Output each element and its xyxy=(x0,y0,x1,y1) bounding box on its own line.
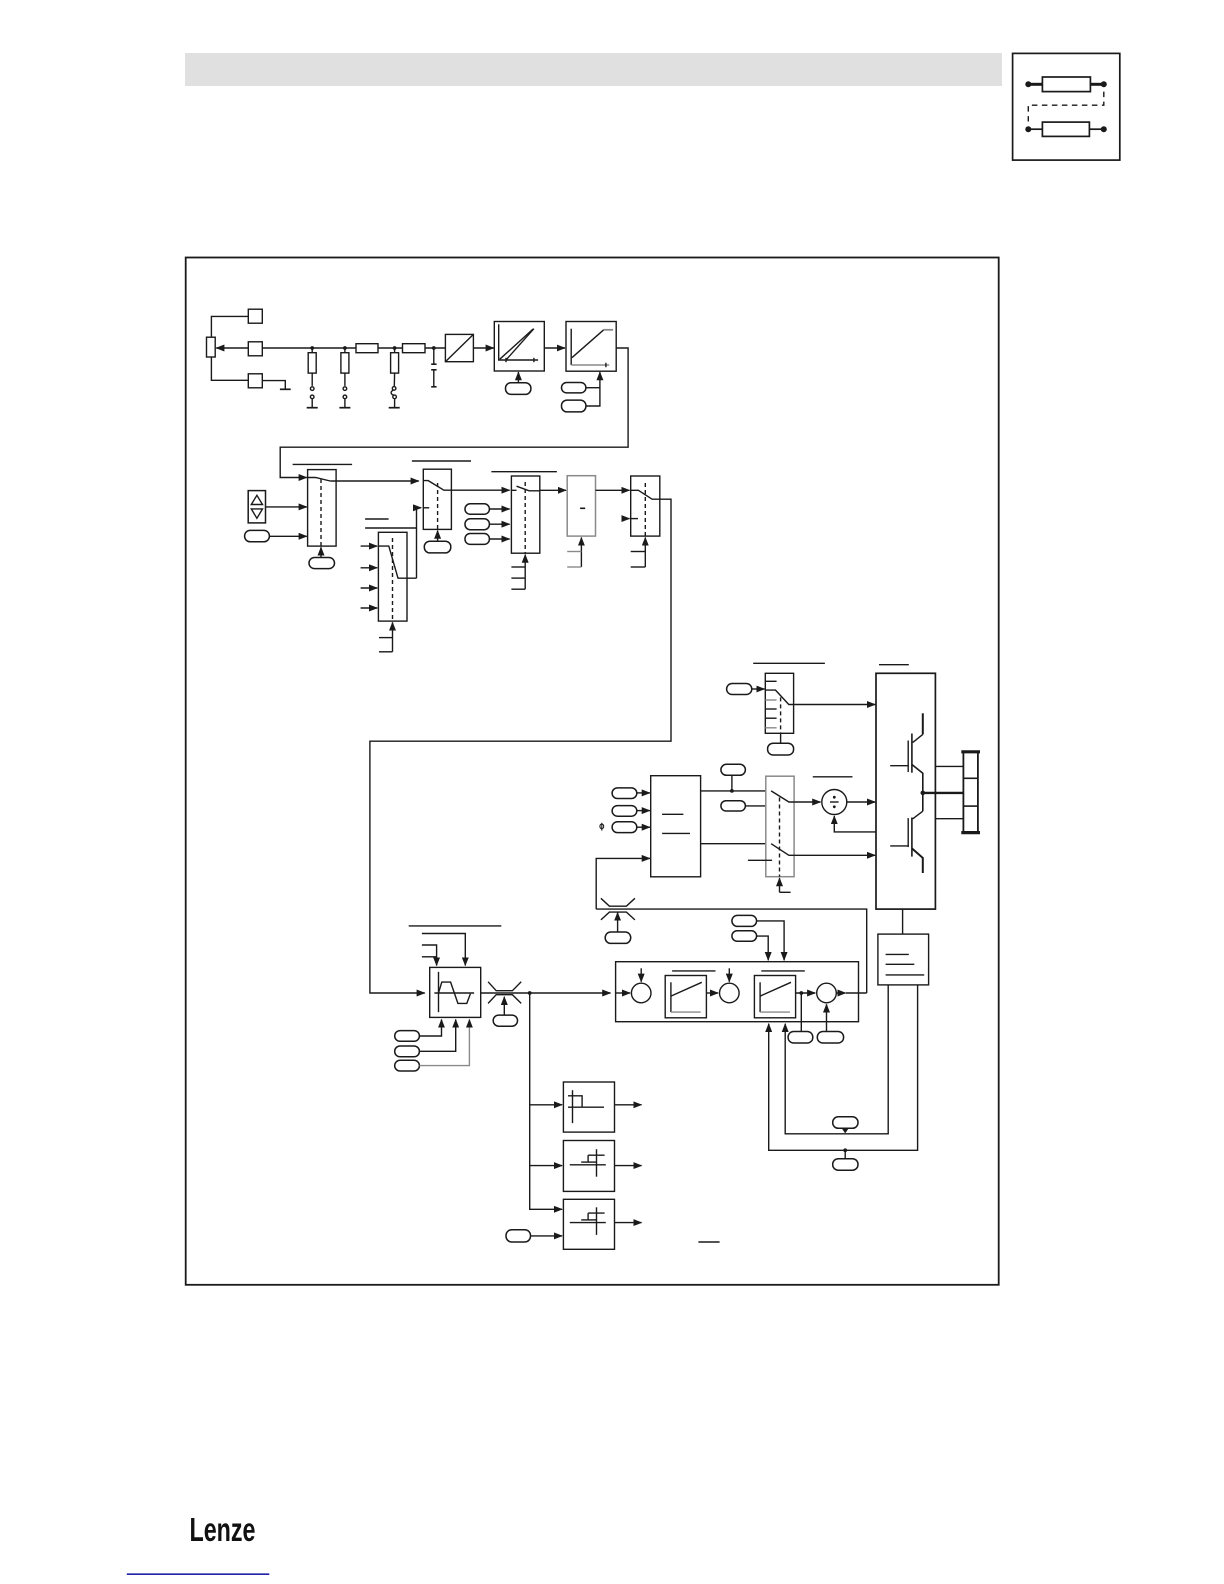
wire xyxy=(615,1165,642,1167)
summing point A1 xyxy=(616,968,651,1003)
function block U2 gain characteristic xyxy=(494,322,544,372)
wire monitor bus xyxy=(530,993,562,1209)
wire PI output feedback loop xyxy=(596,909,867,993)
value label C0182 xyxy=(395,1060,420,1071)
wire xyxy=(361,545,378,547)
motor control block U5 xyxy=(651,776,701,877)
selector code stub under K3 xyxy=(379,622,393,651)
value label C0034 xyxy=(562,383,586,393)
wire xyxy=(844,1150,846,1158)
label underline (JOG) xyxy=(365,518,389,520)
divider U6 xyxy=(822,790,847,815)
wire xyxy=(361,567,378,569)
selector code stub under K5 xyxy=(631,538,646,568)
wire stub xyxy=(422,956,437,958)
diagram frame xyxy=(186,258,999,1285)
value label C0021 xyxy=(612,806,637,817)
summing point A3 xyxy=(817,983,837,1003)
wire xyxy=(503,997,505,1015)
resistor R4 (input divider) xyxy=(341,348,349,386)
selector switch block K4 xyxy=(511,476,539,553)
header bar xyxy=(185,53,1002,86)
label underline (imax) xyxy=(813,776,853,778)
svg-text:Lenze: Lenze xyxy=(190,1512,256,1549)
wire JOG output riser xyxy=(417,508,422,578)
value label C0052 xyxy=(493,1015,517,1026)
wire xyxy=(794,704,876,706)
selector code stub under K7 xyxy=(780,878,791,892)
legend box frame xyxy=(1013,53,1120,160)
resistor R5 (series) xyxy=(356,344,378,353)
comparator block U14 (hysteresis) xyxy=(563,1141,614,1192)
wire xyxy=(266,506,307,508)
wire DC-bus feedback into U6 xyxy=(834,816,876,832)
wire xyxy=(419,1020,441,1037)
wire xyxy=(517,372,519,383)
wire main speed path xyxy=(481,992,611,994)
wire U5 top output xyxy=(701,790,772,792)
wire xyxy=(419,1020,455,1052)
footer rule xyxy=(127,1573,269,1575)
ground xyxy=(280,388,291,390)
JOG selector block K3 xyxy=(378,532,416,621)
wire row1 to row2 xyxy=(280,348,628,478)
selector switch block K2 xyxy=(423,469,451,529)
switch S2 xyxy=(343,387,347,408)
resistor R6 (shunt) xyxy=(391,348,399,386)
value label C0054 xyxy=(833,1117,858,1129)
limiter symbol L2 xyxy=(488,982,521,1004)
wire motor phase V xyxy=(923,792,964,794)
summing point A2 xyxy=(720,968,740,1003)
label underline (V/f select) xyxy=(753,662,825,664)
wire xyxy=(780,733,782,743)
wire stub xyxy=(422,945,437,966)
wire xyxy=(586,372,600,406)
value label C0051 xyxy=(721,801,746,811)
value label C0044 xyxy=(465,519,489,530)
wire wiper arrow xyxy=(216,347,248,349)
value label C0050 xyxy=(721,764,746,775)
label underline (power stage) xyxy=(879,664,909,666)
wire feedback A xyxy=(785,985,888,1134)
node junction xyxy=(843,1148,847,1152)
label underline (bottom note) xyxy=(698,1241,719,1243)
A/D converter U1 xyxy=(445,334,473,361)
wire xyxy=(706,992,718,994)
wire xyxy=(330,480,419,482)
wire xyxy=(320,547,322,557)
wire xyxy=(473,347,493,349)
wire xyxy=(752,688,765,690)
wire xyxy=(847,801,875,803)
wire (legend dashed link) xyxy=(1028,92,1104,122)
wire xyxy=(419,1020,469,1066)
value label C0053 xyxy=(833,1159,858,1171)
value label C0071 xyxy=(817,1032,843,1044)
value label C0040 xyxy=(245,530,270,541)
PI controller block U10 frame xyxy=(616,962,859,1022)
comparator block U13 xyxy=(563,1082,614,1132)
power stage block U7 xyxy=(876,673,935,909)
wire stub xyxy=(622,518,629,520)
node junction xyxy=(799,991,803,995)
wire analog input bus xyxy=(262,347,445,349)
wire feedback B xyxy=(769,985,918,1150)
wire xyxy=(531,1235,563,1237)
label underline (JOG 2) xyxy=(365,527,416,529)
wire xyxy=(757,936,769,960)
comparator block U15 (hysteresis) xyxy=(563,1199,614,1249)
value label C0026 xyxy=(506,383,531,395)
transistor Q2 (IGBT bottom) xyxy=(890,793,923,873)
ground xyxy=(339,407,350,409)
value label C0074 xyxy=(732,915,757,926)
wire xyxy=(540,489,566,491)
label underline under K7 xyxy=(748,859,772,861)
value label C0039 xyxy=(465,534,489,545)
label underline (setpoint select) xyxy=(293,463,353,465)
wire xyxy=(796,992,816,994)
node junction xyxy=(730,789,734,793)
value label C0046 xyxy=(309,558,335,569)
wire xyxy=(826,1004,828,1031)
potentiometer R-setpoint xyxy=(207,337,216,357)
S-ramp block U9 xyxy=(430,967,481,1017)
resistor R7 (series) xyxy=(403,344,426,353)
wire xyxy=(615,1104,642,1106)
wire xyxy=(211,316,248,337)
switch S1 xyxy=(310,387,314,408)
wire motor phase U xyxy=(935,765,963,767)
ground xyxy=(389,407,400,409)
node junction xyxy=(310,346,314,350)
wire xyxy=(586,387,600,389)
node DC midpoint junction xyxy=(921,791,926,796)
wire xyxy=(846,992,867,994)
rectifier block U8 xyxy=(878,909,929,985)
value label C0070 xyxy=(788,1032,813,1044)
motor terminal block X2 xyxy=(961,752,980,833)
wire stub xyxy=(422,934,465,966)
wire xyxy=(836,992,845,994)
wire xyxy=(617,913,619,933)
wire row2 to row4 long feedback xyxy=(370,499,671,993)
resistor R2 (legend bottom) xyxy=(1025,122,1107,136)
label underline (S-ramp) xyxy=(409,925,502,927)
value label C0015 xyxy=(768,743,794,755)
inverter block U4 (minus) xyxy=(567,476,595,536)
switch S3 closed xyxy=(391,387,396,408)
wire xyxy=(637,792,650,794)
wire xyxy=(489,508,509,510)
transistor Q1 (IGBT top) xyxy=(890,713,923,793)
wire U5 bottom output xyxy=(701,843,772,845)
wire xyxy=(615,1222,642,1224)
selector switch block K1 xyxy=(308,470,337,546)
wire xyxy=(489,538,509,540)
wire xyxy=(361,607,378,609)
selector code stub under U4 xyxy=(567,538,581,568)
wire xyxy=(530,1104,562,1106)
selector switch block K5 xyxy=(631,476,660,536)
integrator block U12 xyxy=(754,976,795,1018)
capacitor C1 xyxy=(431,348,436,387)
wire xyxy=(794,854,875,856)
wire xyxy=(757,921,785,960)
wire xyxy=(731,775,733,791)
wire stub xyxy=(745,805,771,807)
ground xyxy=(307,407,318,409)
selector switch block K6 (V/f) xyxy=(765,673,793,733)
node junction xyxy=(393,346,397,350)
wire motor phase W xyxy=(935,818,963,820)
node junction xyxy=(432,346,436,350)
node X1 terminal square 7 xyxy=(248,342,262,356)
label underline (Ti) xyxy=(761,970,805,972)
limiter symbol L1 xyxy=(601,898,635,920)
motor potentiometer symbol xyxy=(248,491,265,523)
wire xyxy=(596,489,630,491)
value label C0101 xyxy=(395,1031,420,1042)
value label C0022 xyxy=(612,788,637,799)
gain block U11 xyxy=(665,976,706,1018)
wire xyxy=(361,587,378,589)
wire xyxy=(637,826,650,828)
wire xyxy=(637,810,650,812)
function block U3 ramp limiter xyxy=(566,322,616,372)
value label C0016 xyxy=(612,822,637,833)
value label C0045 xyxy=(465,504,489,515)
node junction xyxy=(528,991,532,995)
resistor R3 (input divider) xyxy=(308,348,316,386)
node X1 terminal square 9 xyxy=(248,374,262,388)
wire xyxy=(262,381,285,389)
wire xyxy=(489,523,509,525)
wire xyxy=(544,347,565,349)
label underline (JOG select) xyxy=(412,460,471,462)
node junction xyxy=(343,346,347,350)
label underline (Kp) xyxy=(672,970,715,972)
value label C0010 xyxy=(562,400,586,412)
value label C0047 xyxy=(605,932,631,943)
wire xyxy=(211,357,248,380)
wire xyxy=(800,993,802,1032)
value label C0072 xyxy=(732,931,757,941)
wire xyxy=(530,1165,562,1167)
selector switch block K7 (gray) xyxy=(766,776,794,877)
resistor R1 (legend top) xyxy=(1025,77,1107,92)
wire feedback into U5 xyxy=(596,858,650,909)
wire xyxy=(844,1128,846,1129)
value label C0017 xyxy=(506,1230,531,1242)
node X1 terminal square 62/1 xyxy=(248,309,262,323)
node phi label xyxy=(600,823,604,831)
value label C0037 xyxy=(424,541,451,553)
label underline (ramp select) xyxy=(491,471,557,473)
selector code stub under K4 xyxy=(511,555,525,590)
value label C0103 xyxy=(395,1046,420,1057)
wire xyxy=(794,801,820,803)
wire xyxy=(451,489,509,491)
wire xyxy=(269,535,306,537)
value label C0014 xyxy=(727,684,752,695)
wire xyxy=(437,531,439,542)
